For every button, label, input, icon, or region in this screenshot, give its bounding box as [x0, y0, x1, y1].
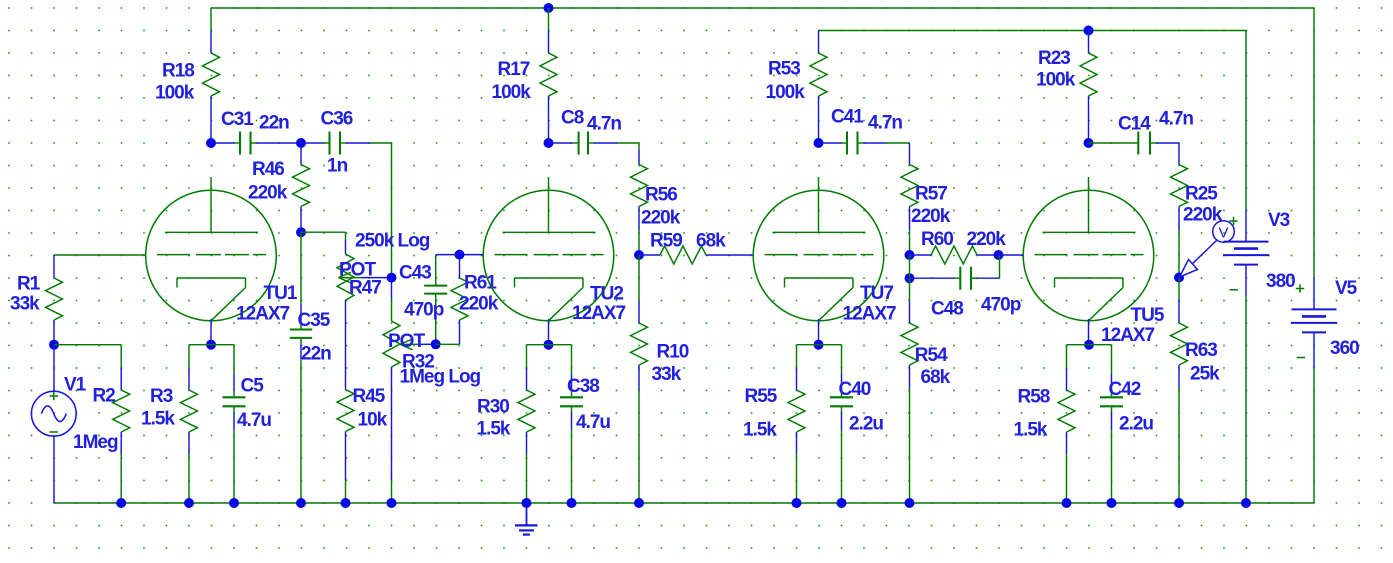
- capacitor C35: [290, 232, 312, 503]
- svg-text:33k: 33k: [652, 364, 682, 385]
- svg-text:R59: R59: [650, 231, 682, 252]
- svg-text:R53: R53: [768, 59, 800, 80]
- resistor R60: [910, 246, 999, 264]
- wire grid TU2: [460, 254, 484, 256]
- wire R57-C48: [909, 255, 911, 278]
- svg-text:R63: R63: [1185, 340, 1217, 361]
- node cathode TU1: [206, 340, 216, 350]
- node grid TU2: [455, 250, 465, 260]
- node output divider: [1174, 273, 1184, 283]
- resistor R17: [540, 8, 557, 143]
- label R47: [339, 231, 430, 299]
- svg-text:12AX7: 12AX7: [572, 303, 626, 324]
- label V5: [1330, 278, 1359, 359]
- label R56: [641, 185, 681, 229]
- triode TU1: [146, 177, 298, 345]
- svg-text:R57: R57: [915, 184, 947, 205]
- capacitor C41: [819, 132, 910, 155]
- wire top supply rail: [211, 7, 1314, 9]
- resistor R54: [901, 278, 918, 503]
- resistor R53: [810, 31, 827, 144]
- label R32: [388, 331, 481, 388]
- node R57 bottom: [905, 250, 915, 260]
- svg-text:R10: R10: [657, 342, 689, 363]
- cathode group TU1: [181, 345, 246, 503]
- svg-text:C31: C31: [221, 109, 254, 130]
- source V1: [31, 345, 76, 503]
- svg-text:R18: R18: [162, 61, 194, 82]
- resistor R59: [639, 246, 754, 264]
- node pot R32 output: [431, 339, 441, 349]
- resistor R23: [1080, 31, 1097, 144]
- svg-text:C35: C35: [298, 310, 331, 331]
- svg-text:V: V: [1218, 225, 1228, 242]
- resistor R2: [54, 345, 130, 503]
- capacitor C48: [910, 255, 1000, 290]
- label C35: [298, 310, 332, 365]
- label V1: [64, 375, 87, 396]
- svg-text:C38: C38: [567, 376, 599, 397]
- label R57: [911, 184, 951, 228]
- svg-text:470p: 470p: [981, 295, 1021, 316]
- wire R46 to pot R47: [301, 232, 346, 254]
- svg-text:R45: R45: [353, 386, 386, 407]
- svg-text:25k: 25k: [1190, 364, 1220, 385]
- capacitor C43: [424, 255, 459, 345]
- label C43: [399, 263, 444, 321]
- node cathode TU5: [1084, 340, 1094, 350]
- svg-text:1.5k: 1.5k: [1014, 420, 1048, 441]
- label R63: [1185, 340, 1220, 385]
- svg-text:2.2u: 2.2u: [1119, 414, 1153, 435]
- svg-text:4.7u: 4.7u: [576, 412, 610, 433]
- svg-text:TU1: TU1: [264, 283, 298, 304]
- wire V5 bottom to ground rail: [1313, 332, 1315, 503]
- label R59: [650, 231, 726, 252]
- svg-text:68k: 68k: [696, 231, 726, 252]
- svg-text:R2: R2: [93, 386, 116, 407]
- cathode group TU5: [1058, 345, 1123, 503]
- node C31-C36: [296, 138, 306, 148]
- node rail2 R23: [1084, 26, 1094, 36]
- svg-text:C42: C42: [1109, 379, 1141, 400]
- svg-text:100k: 100k: [1036, 70, 1076, 91]
- wire right edge down to V5: [1313, 8, 1315, 309]
- svg-text:R58: R58: [1018, 387, 1050, 408]
- svg-text:1Meg: 1Meg: [73, 432, 118, 453]
- node R60 right: [994, 250, 1004, 260]
- label R3: [141, 386, 175, 430]
- node plate TU7: [814, 138, 824, 148]
- svg-text:C14: C14: [1118, 114, 1151, 135]
- svg-text:1.5k: 1.5k: [477, 419, 511, 440]
- label C40: [839, 379, 884, 435]
- label R30: [477, 397, 511, 440]
- svg-text:R25: R25: [1185, 184, 1218, 205]
- svg-text:TU2: TU2: [590, 284, 623, 305]
- svg-text:220k: 220k: [248, 183, 288, 204]
- label C42: [1109, 379, 1154, 435]
- source V5: [1291, 284, 1337, 357]
- label C48: [931, 295, 1021, 320]
- svg-text:1n: 1n: [327, 156, 348, 177]
- svg-text:12AX7: 12AX7: [843, 304, 897, 325]
- node cathode TU7: [814, 340, 824, 350]
- label C5: [237, 376, 271, 431]
- svg-text:C8: C8: [561, 108, 584, 129]
- svg-text:220k: 220k: [911, 206, 951, 227]
- svg-text:C5: C5: [241, 376, 265, 397]
- svg-text:1.5k: 1.5k: [743, 420, 777, 441]
- svg-text:100k: 100k: [492, 82, 532, 103]
- node plate TU2: [544, 138, 554, 148]
- label C8: [561, 108, 621, 135]
- resistor R25: [1171, 143, 1188, 278]
- label C31: [221, 109, 289, 134]
- capacitor C14: [1089, 132, 1180, 155]
- svg-text:V5: V5: [1335, 278, 1358, 299]
- svg-text:22n: 22n: [301, 344, 331, 365]
- label R10: [652, 342, 689, 386]
- label R18: [155, 61, 195, 104]
- label R55: [743, 386, 778, 441]
- label R23: [1036, 48, 1076, 90]
- svg-text:220k: 220k: [967, 229, 1007, 250]
- svg-text:R47: R47: [349, 278, 381, 299]
- svg-text:2.2u: 2.2u: [849, 414, 883, 435]
- wire C36 down to pot wiper: [391, 143, 393, 278]
- svg-text:33k: 33k: [10, 294, 40, 315]
- svg-text:C41: C41: [831, 107, 864, 128]
- wire grid TU5: [999, 254, 1024, 256]
- svg-text:C40: C40: [839, 379, 871, 400]
- svg-text:R55: R55: [745, 386, 778, 407]
- node R56 bottom: [634, 250, 644, 260]
- svg-text:1.5k: 1.5k: [141, 409, 175, 430]
- resistor R46: [293, 143, 310, 232]
- wire second supply rail: [819, 30, 1247, 32]
- ground rail junctions: [116, 498, 1251, 508]
- label R17: [492, 59, 532, 103]
- node cathode TU2: [544, 340, 554, 350]
- ground: [515, 503, 538, 535]
- svg-text:4.7n: 4.7n: [587, 114, 621, 135]
- triode TU5: [1023, 177, 1165, 346]
- label R46: [248, 159, 288, 204]
- label R25: [1183, 184, 1223, 226]
- resistor R10: [631, 255, 648, 503]
- label R60: [921, 229, 1006, 250]
- capacitor C31: [211, 132, 301, 155]
- voltmeter probe V: [1180, 217, 1238, 277]
- label R61: [459, 273, 499, 315]
- resistor R56: [631, 143, 648, 255]
- node wiper R47: [387, 273, 397, 283]
- node V1 top: [49, 340, 59, 350]
- cathode group TU7: [788, 345, 853, 503]
- svg-text:22n: 22n: [259, 113, 289, 134]
- svg-text:R61: R61: [464, 273, 497, 294]
- label R53: [766, 59, 806, 104]
- label C38: [567, 376, 610, 433]
- svg-text:TU5: TU5: [1131, 305, 1165, 326]
- node plate TU1: [206, 138, 216, 148]
- svg-text:V3: V3: [1268, 210, 1290, 231]
- wire grid TU1: [54, 254, 146, 256]
- svg-text:C48: C48: [931, 299, 963, 320]
- svg-text:R1: R1: [17, 274, 41, 295]
- svg-text:R30: R30: [477, 397, 509, 418]
- node rail R17: [544, 3, 554, 13]
- wire V3 branch down: [1245, 31, 1247, 242]
- resistor R18: [203, 8, 220, 143]
- svg-text:360: 360: [1330, 338, 1359, 359]
- label C14: [1118, 109, 1193, 135]
- wire bottom ground rail: [54, 502, 1314, 504]
- svg-text:TU7: TU7: [860, 283, 893, 304]
- capacitor C8: [549, 132, 640, 155]
- node R46 bottom: [296, 227, 306, 237]
- svg-text:470p: 470p: [404, 300, 444, 321]
- svg-text:250k Log: 250k Log: [355, 231, 430, 252]
- svg-text:1Meg Log: 1Meg Log: [400, 367, 481, 388]
- svg-text:10k: 10k: [358, 410, 388, 431]
- svg-text:4.7n: 4.7n: [868, 113, 902, 134]
- resistor R45: [337, 390, 354, 504]
- svg-text:R23: R23: [1038, 48, 1070, 69]
- svg-text:R56: R56: [645, 185, 677, 206]
- label V3: [1266, 210, 1295, 292]
- node plate TU5: [1084, 138, 1094, 148]
- svg-text:V1: V1: [64, 375, 87, 396]
- resistor R63: [1171, 278, 1188, 504]
- resistor R57: [901, 143, 918, 255]
- triode TU2: [483, 177, 625, 345]
- svg-text:C36: C36: [321, 109, 353, 130]
- svg-text:12AX7: 12AX7: [236, 304, 290, 325]
- svg-text:R17: R17: [498, 59, 530, 80]
- svg-text:100k: 100k: [155, 83, 195, 104]
- label C36: [321, 109, 353, 177]
- label R1: [10, 274, 41, 315]
- potentiometer R32: [383, 278, 436, 503]
- triode TU7: [753, 177, 896, 345]
- wire V3 bottom down to rail: [1245, 265, 1247, 503]
- svg-text:4.7u: 4.7u: [237, 410, 271, 431]
- svg-text:R60: R60: [921, 229, 953, 250]
- svg-text:68k: 68k: [921, 367, 951, 388]
- svg-text:12AX7: 12AX7: [1101, 325, 1155, 346]
- svg-text:C43: C43: [399, 263, 431, 284]
- capacitor C36: [301, 132, 392, 155]
- svg-text:380: 380: [1266, 271, 1295, 292]
- label R54: [915, 345, 951, 388]
- svg-text:220k: 220k: [459, 294, 499, 315]
- resistor R61: [436, 255, 468, 345]
- label R58: [1014, 387, 1050, 441]
- svg-text:R54: R54: [915, 345, 948, 366]
- node C48 left: [905, 273, 915, 283]
- cathode group TU2: [518, 345, 583, 503]
- svg-text:220k: 220k: [641, 208, 681, 229]
- svg-text:R46: R46: [252, 159, 284, 180]
- label C41: [831, 107, 902, 134]
- wire R47 to R45: [345, 300, 347, 390]
- label R2: [73, 386, 118, 454]
- source V3: [1223, 242, 1269, 290]
- svg-text:4.7n: 4.7n: [1159, 109, 1193, 130]
- svg-text:POT: POT: [388, 331, 425, 352]
- svg-text:100k: 100k: [766, 82, 806, 103]
- label R45: [353, 386, 388, 431]
- potentiometer R47: [337, 254, 392, 300]
- resistor R1: [46, 255, 63, 345]
- svg-text:R3: R3: [150, 386, 173, 407]
